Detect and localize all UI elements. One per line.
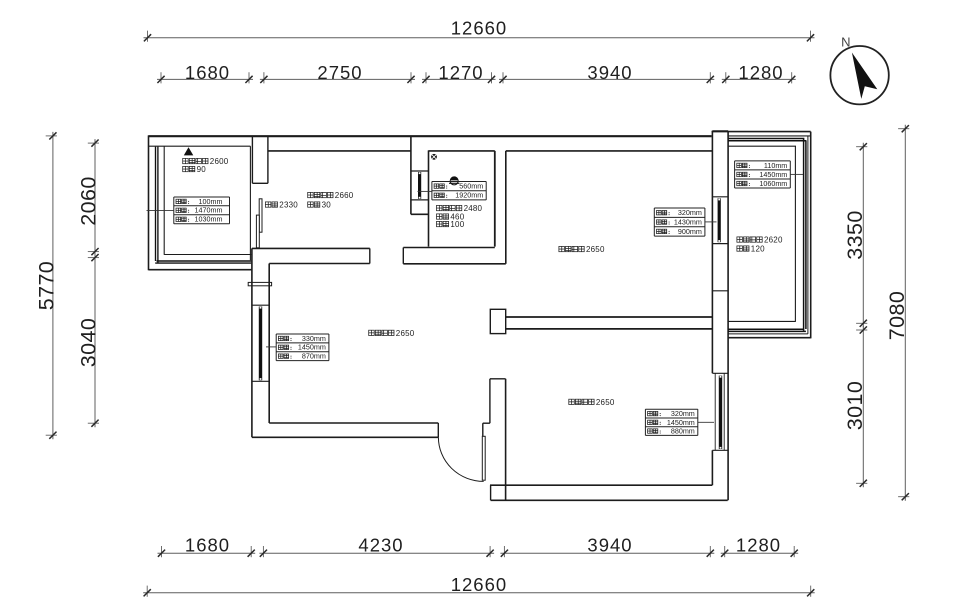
svg-text:320mm: 320mm	[671, 409, 695, 418]
svg-text:870mm: 870mm	[302, 352, 326, 361]
svg-text:30: 30	[322, 201, 332, 210]
svg-text:1920mm: 1920mm	[455, 191, 483, 200]
svg-text:2650: 2650	[596, 398, 615, 407]
svg-text:2600: 2600	[210, 157, 229, 166]
svg-text:3940: 3940	[587, 535, 632, 556]
svg-text:900mm: 900mm	[678, 227, 702, 236]
svg-text:100mm: 100mm	[199, 197, 223, 206]
svg-text:2750: 2750	[317, 62, 362, 83]
svg-text:1280: 1280	[738, 62, 783, 83]
svg-text:1280: 1280	[736, 535, 781, 556]
svg-text:5770: 5770	[35, 261, 59, 310]
svg-text:1270: 1270	[438, 62, 483, 83]
svg-text:560mm: 560mm	[459, 182, 483, 191]
svg-text:3350: 3350	[843, 210, 867, 259]
svg-text:1450mm: 1450mm	[298, 343, 326, 352]
svg-text:3940: 3940	[587, 62, 632, 83]
svg-text:1450mm: 1450mm	[759, 170, 787, 179]
svg-text:2650: 2650	[586, 245, 605, 254]
svg-text:4230: 4230	[358, 535, 403, 556]
svg-text:110mm: 110mm	[764, 161, 787, 170]
svg-text:1060mm: 1060mm	[759, 179, 787, 188]
svg-text:2660: 2660	[335, 191, 354, 200]
svg-text:2650: 2650	[396, 329, 415, 338]
svg-text:2330: 2330	[279, 201, 298, 210]
svg-text:7080: 7080	[885, 291, 909, 340]
svg-text:1430mm: 1430mm	[674, 217, 702, 226]
svg-text:1450mm: 1450mm	[667, 418, 695, 427]
svg-text:12660: 12660	[451, 574, 507, 595]
svg-text:90: 90	[197, 165, 207, 174]
svg-text:330mm: 330mm	[302, 334, 326, 343]
svg-text:2060: 2060	[77, 176, 101, 225]
svg-text:880mm: 880mm	[671, 426, 695, 435]
svg-text:3010: 3010	[843, 381, 867, 430]
svg-text:1470mm: 1470mm	[195, 206, 223, 215]
svg-text:1030mm: 1030mm	[195, 215, 223, 224]
svg-text:N: N	[841, 35, 850, 50]
svg-text:120: 120	[751, 245, 765, 254]
svg-text:320mm: 320mm	[678, 208, 702, 217]
svg-text:100: 100	[450, 220, 464, 229]
svg-text:12660: 12660	[451, 18, 507, 39]
svg-text:2620: 2620	[764, 236, 783, 245]
svg-text:2480: 2480	[464, 204, 483, 213]
svg-text:1680: 1680	[185, 62, 230, 83]
svg-text:1680: 1680	[185, 535, 230, 556]
svg-text:3040: 3040	[77, 318, 101, 367]
